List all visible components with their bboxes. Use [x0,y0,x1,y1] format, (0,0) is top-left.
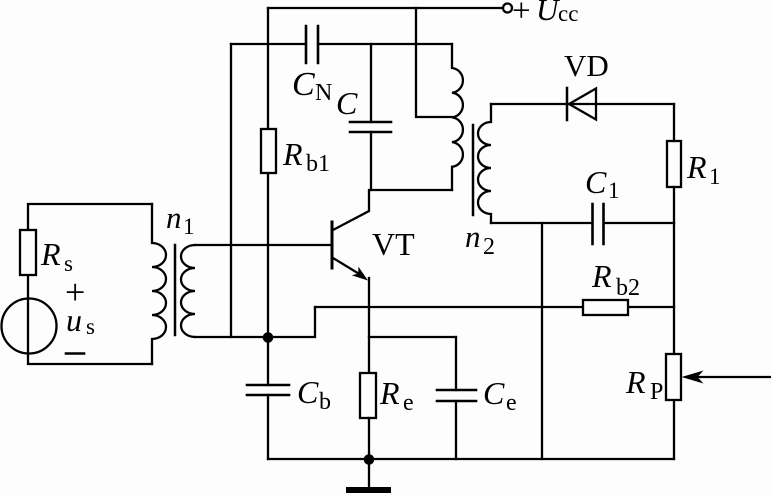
capacitor C1 [593,204,604,244]
wire left vertical from supply to base node [267,8,269,337]
label +Ucc [512,0,578,29]
terminal +Ucc circle [503,4,512,13]
svg-text:C: C [292,66,315,103]
svg-text:1: 1 [608,178,620,203]
wire source loop [28,204,152,364]
wire tank top [491,103,674,105]
node base junction dot [263,332,274,343]
inductor n1 secondary [181,245,195,337]
svg-text:cc: cc [558,1,578,26]
svg-text:VD: VD [564,48,609,83]
label n1 [166,200,195,239]
label R1 [686,149,721,189]
label C1 [585,164,620,203]
wire emitter vertical [368,278,370,373]
label Rb2 [591,258,640,301]
svg-text:N: N [315,80,332,106]
diode VD [566,88,569,120]
ground [368,459,370,487]
source us circle [2,299,57,354]
svg-text:R: R [40,236,61,272]
svg-text:1: 1 [183,214,195,239]
wiper arrow [682,371,704,384]
label Rs [40,236,73,276]
svg-text:+: + [512,0,531,29]
svg-text:C: C [336,85,358,121]
svg-text:2: 2 [483,234,495,260]
svg-text:C: C [483,375,505,411]
label CN [292,66,332,106]
svg-text:R: R [625,364,646,400]
label C [336,85,358,121]
svg-text:1: 1 [709,164,721,189]
resistor RP [666,354,681,400]
label Ce [483,375,517,416]
wire tank bottom [491,222,674,224]
capacitor C [350,122,391,132]
transistor VT collector [333,190,369,230]
inductor n2 primary [452,44,463,190]
svg-text:s: s [86,314,95,339]
transistor VT base bar [331,222,334,268]
label RP [625,364,663,405]
wire tank-to-ground vertical [541,223,543,459]
svg-text:VT: VT [372,226,415,262]
svg-text:u: u [66,302,82,338]
inductor n2 secondary [478,104,491,223]
wire right vertical [673,104,675,459]
wire collector rail [371,189,452,191]
svg-text:n: n [166,200,182,235]
resistor Re [360,373,376,418]
label Re [379,375,414,416]
wire emitter bypass [369,336,456,338]
resistor Rs [20,230,36,275]
label n2 [465,219,495,260]
resistor Rb1 [261,129,276,173]
svg-text:R: R [686,149,707,185]
svg-text:R: R [379,375,400,411]
svg-text:C: C [585,164,607,200]
inductor n1 primary [152,204,166,364]
svg-text:b: b [319,389,331,415]
label VT [372,226,415,262]
node ground junction dot [364,454,375,465]
svg-text:R: R [282,136,303,172]
resistor R1 [667,141,681,187]
wire tap vertical [416,8,452,117]
label + [65,272,95,339]
svg-text:n: n [465,219,481,254]
svg-text:P: P [650,379,663,405]
label VD [564,48,609,83]
wire ground bus [268,458,674,460]
wire base lead [195,244,331,246]
wire far-left vertical [230,44,232,337]
wire base bottom return [195,307,315,337]
label Cb [297,374,331,415]
wire bias rail to Rb2 [315,306,674,308]
svg-text:C: C [297,374,319,410]
capacitor Cb [267,337,269,459]
capacitor CN [306,26,318,63]
wire CN rail [231,43,452,45]
svg-text:e: e [506,390,517,416]
capacitor Ce [455,337,457,459]
wire top supply rail [268,7,502,9]
capacitor C branch wire [370,44,372,190]
svg-text:b1: b1 [306,151,330,177]
core n2 [472,125,475,215]
label Rb1 [282,136,330,177]
transistor VT emitter [333,258,361,275]
svg-text:e: e [403,390,414,416]
svg-text:R: R [591,258,612,294]
svg-text:b2: b2 [616,275,640,301]
core n1 [174,245,177,335]
resistor Rb2 [583,300,628,315]
